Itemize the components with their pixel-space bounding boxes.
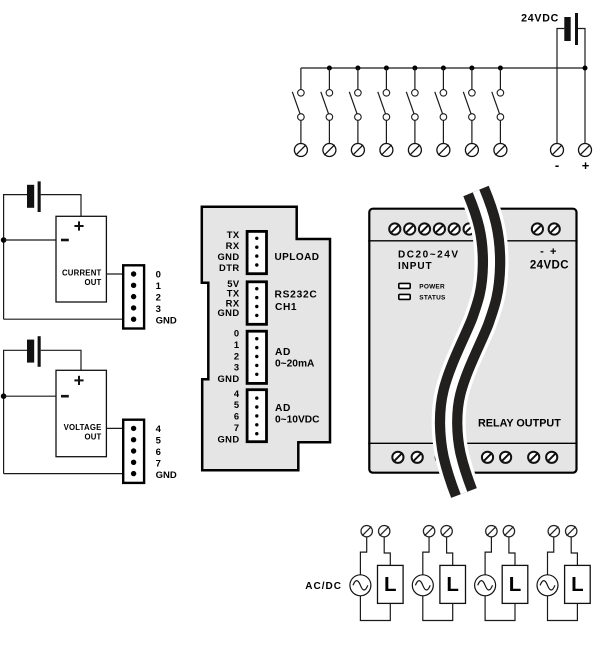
svg-text:OUT: OUT [84, 278, 101, 287]
wire terminal A to AC source G1 [360, 537, 366, 575]
screw terminals DC input (8x) [389, 223, 504, 234]
svg-text:CURRENT: CURRENT [62, 269, 102, 278]
connector RS232C CH1 connector CN2 [247, 282, 266, 325]
svg-text:0: 0 [234, 328, 240, 339]
junction bus / + wire [583, 66, 588, 71]
terminal X5 [437, 144, 450, 157]
AC source G2 [412, 575, 433, 596]
voltage source box U3 [56, 370, 106, 456]
svg-text:5: 5 [234, 399, 240, 410]
switch S2 [321, 68, 333, 144]
wire AC source G2 to load L2 (return) [423, 596, 453, 621]
battery B3 (voltage loop supply) [27, 336, 41, 367]
svg-text:5: 5 [156, 436, 162, 447]
terminal X4 [408, 144, 421, 157]
svg-text:DTR: DTR [219, 262, 239, 273]
AC source G3 [475, 575, 496, 596]
wire terminal A to AC source G3 [485, 537, 491, 575]
switch S1 [292, 68, 304, 144]
terminal + (24VDC) [579, 144, 592, 157]
wire GND rail to connector J1 [4, 318, 123, 320]
battery B1 (24VDC supply) [564, 13, 578, 45]
terminal relay 2 B [441, 526, 452, 537]
terminal X2 [351, 144, 364, 157]
polarity + (U2) [74, 221, 83, 230]
load L4 [565, 565, 591, 603]
junction input bus / switch S8 [498, 66, 503, 71]
terminal relay 2 A [423, 526, 434, 537]
switch S8 [492, 68, 504, 144]
wire input common bus [301, 67, 585, 69]
terminal relay 4 A [548, 526, 559, 537]
switch S4 [378, 68, 390, 144]
wire terminal B to load L3 [509, 537, 515, 565]
wire battery negative to terminal - [557, 29, 564, 144]
wire minus rail to source box [4, 239, 56, 241]
svg-text:RELAY OUTPUT: RELAY OUTPUT [478, 417, 561, 429]
polarity + (U3) [74, 376, 83, 385]
PLC module U4 (body) [369, 209, 576, 473]
label - + [540, 246, 556, 258]
svg-text:0: 0 [156, 270, 161, 281]
switch S7 [463, 68, 475, 144]
wire B2 positive to source box top [41, 195, 81, 217]
svg-text:INPUT: INPUT [398, 261, 433, 272]
svg-text:1: 1 [156, 281, 162, 292]
connector AD 0~20mA connector CN3 [247, 331, 266, 383]
terminal X0 [294, 144, 307, 157]
svg-text:1: 1 [234, 339, 240, 350]
connector AD 0~10VDC connector CN4 [247, 390, 266, 442]
svg-text:RS232C: RS232C [275, 289, 318, 300]
divider line (bottom terminal strip) [368, 442, 577, 444]
wire AC source G4 to load L4 (return) [548, 596, 578, 621]
svg-text:+: + [550, 246, 556, 258]
relay output terminal pair 1 [392, 452, 423, 463]
connector J1 (analog current input) [123, 265, 144, 328]
svg-text:STATUS: STATUS [419, 294, 446, 301]
wire battery positive to terminal + [578, 29, 585, 144]
svg-text:CH1: CH1 [275, 302, 297, 313]
AC source G1 [350, 575, 371, 596]
connector J1 pins [131, 271, 136, 322]
svg-text:AC/DC: AC/DC [305, 581, 342, 592]
junction input bus / switch S4 [384, 66, 389, 71]
wire terminal A to AC source G4 [548, 537, 554, 575]
cable harness W1 (two conductors) [449, 191, 492, 493]
svg-text:2: 2 [234, 350, 240, 361]
svg-text:UPLOAD: UPLOAD [275, 252, 320, 263]
svg-text:AD: AD [275, 403, 291, 414]
connector J2 pins [131, 426, 136, 477]
svg-text:AD: AD [275, 347, 291, 358]
terminal X7 [494, 144, 507, 157]
wire GND rail to connector J2 [4, 473, 123, 475]
svg-text:0~20mA: 0~20mA [275, 359, 315, 370]
svg-text:24VDC: 24VDC [530, 259, 569, 271]
svg-text:L: L [509, 573, 522, 596]
svg-text:-: - [555, 158, 559, 173]
svg-text:GND: GND [217, 251, 239, 262]
wire B3 negative rail (left) [4, 350, 27, 473]
svg-text:OUT: OUT [84, 432, 101, 441]
svg-text:GND: GND [217, 307, 239, 318]
switch S3 [349, 68, 361, 144]
svg-text:L: L [384, 573, 397, 596]
svg-text:7: 7 [156, 459, 161, 470]
AC source G4 [537, 575, 558, 596]
load L1 [378, 565, 404, 603]
I/O interface module U1 (body outline) [202, 207, 330, 471]
svg-text:+: + [582, 158, 590, 173]
connector UPLOAD port connector CN1 [247, 231, 266, 273]
svg-text:4: 4 [234, 388, 240, 399]
terminal X3 [380, 144, 393, 157]
terminal - (24VDC) [551, 144, 564, 157]
svg-text:24VDC: 24VDC [521, 13, 559, 25]
label CURRENT OUT [62, 269, 102, 287]
svg-text:GND: GND [217, 433, 239, 444]
junction input bus / switch S5 [412, 66, 417, 71]
wire AC source G1 to load L1 (return) [360, 596, 390, 621]
wire U3 out to pin 4 [106, 427, 122, 429]
svg-text:7: 7 [234, 422, 240, 433]
LED STATUS [399, 294, 410, 299]
current source box U2 [56, 216, 106, 302]
terminal relay 4 B [566, 526, 577, 537]
svg-text:4: 4 [156, 424, 162, 435]
divider line (top terminal strip) [368, 240, 577, 242]
svg-text:DC20~24V: DC20~24V [398, 250, 460, 261]
screw terminals 24VDC aux (2x) [532, 223, 560, 234]
terminal relay 1 B [379, 526, 390, 537]
terminal X1 [323, 144, 336, 157]
junction input bus / switch S6 [441, 66, 446, 71]
svg-text:-: - [540, 246, 544, 258]
svg-text:2: 2 [156, 293, 161, 304]
svg-text:6: 6 [234, 411, 240, 422]
junction minus rail / source box [1, 237, 7, 243]
junction minus rail / source box [1, 393, 7, 399]
wire terminal B to load L1 [384, 537, 390, 565]
wire B2 negative rail (left) [4, 195, 27, 320]
svg-text:RX: RX [226, 240, 240, 251]
svg-text:POWER: POWER [419, 283, 445, 290]
wire AC source G3 to load L3 (return) [485, 596, 515, 621]
LED POWER [399, 283, 410, 288]
svg-text:6: 6 [156, 447, 161, 458]
junction input bus / switch S2 [327, 66, 332, 71]
polarity - (U3) [61, 395, 69, 398]
switch S5 [406, 68, 418, 144]
svg-text:GND: GND [156, 470, 177, 481]
svg-text:3: 3 [156, 304, 161, 315]
svg-text:TX: TX [227, 229, 240, 240]
relay output terminal pair 4 [528, 452, 557, 463]
battery B2 (current loop supply) [27, 181, 41, 212]
wire minus rail to source box [4, 395, 56, 397]
wire terminal B to load L4 [571, 537, 577, 565]
svg-text:L: L [446, 573, 459, 596]
terminal X6 [465, 144, 478, 157]
svg-text:VOLTAGE: VOLTAGE [64, 423, 102, 432]
wire terminal A to AC source G2 [423, 537, 429, 575]
junction input bus / switch S7 [469, 66, 474, 71]
svg-text:L: L [571, 573, 584, 596]
terminal relay 3 B [503, 526, 514, 537]
junction input bus / switch S3 [355, 66, 360, 71]
wire B3 positive to source box top [41, 350, 81, 370]
connector J2 (analog voltage input) [123, 420, 144, 483]
polarity - (U2) [61, 239, 69, 242]
terminal relay 1 A [361, 526, 372, 537]
relay output terminal pair 3 [482, 452, 511, 463]
relay output terminal pair 2 [436, 452, 467, 463]
switch S6 [435, 68, 447, 144]
load L2 [440, 565, 466, 603]
svg-text:0~10VDC: 0~10VDC [275, 415, 320, 426]
svg-text:3: 3 [234, 362, 240, 373]
terminal relay 3 A [486, 526, 497, 537]
wire U2 out to pin 0 [106, 273, 122, 275]
label VOLTAGE OUT [64, 423, 102, 441]
svg-text:GND: GND [217, 373, 239, 384]
load L3 [502, 565, 528, 603]
svg-text:GND: GND [156, 316, 177, 327]
wire terminal B to load L2 [447, 537, 453, 565]
